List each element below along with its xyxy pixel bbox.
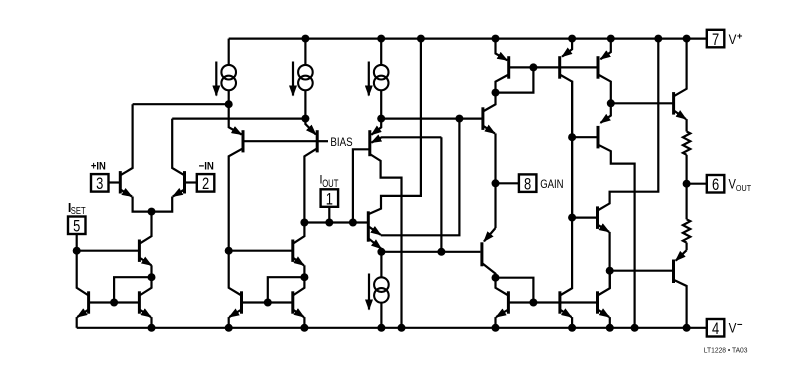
wire Q6 emitter to rail <box>76 317 78 328</box>
transistor Q13 <box>496 39 509 93</box>
transistor Q1 <box>120 104 151 211</box>
svg-text:1: 1 <box>326 190 333 208</box>
transistor Q5 <box>139 212 151 266</box>
transistor Q14 <box>560 39 572 138</box>
node Q18 collector <box>492 274 500 282</box>
wire Q3 Q4 base line <box>243 140 317 142</box>
wire Q2 collector to I2 <box>172 117 305 119</box>
wire Q1 collector to I1 <box>133 103 229 105</box>
node I4 top <box>377 248 385 256</box>
current source I2 <box>293 39 313 119</box>
caption <box>704 346 748 355</box>
wire V- rail <box>77 327 707 329</box>
pin 3 box <box>91 174 109 193</box>
node Q7 on rail <box>148 324 156 332</box>
wire Q13 base line <box>509 66 598 68</box>
transistor Q11 <box>370 119 442 328</box>
node I4 on rail <box>377 324 385 332</box>
node Q16 on rail <box>607 35 615 43</box>
wire VOUT to pin6 <box>687 183 707 185</box>
transistor Q20 <box>560 81 572 318</box>
label -IN <box>199 161 214 173</box>
current source I4 <box>369 252 389 328</box>
transistor Q9 <box>229 251 242 317</box>
wire Q8 emitter down <box>303 265 305 277</box>
wire Q12 emitter1 line <box>381 119 460 236</box>
wire Q19 emitter to rail <box>494 317 496 328</box>
wire V+ rail <box>229 37 707 39</box>
node Q21 on rail <box>606 324 614 332</box>
label GAIN <box>540 177 563 191</box>
wire Q22 emitter down <box>608 232 610 271</box>
node Q5 emitter <box>148 273 156 281</box>
transistor Q21 <box>598 271 610 317</box>
pin 6 box <box>707 175 725 194</box>
label V+ <box>729 31 743 47</box>
node input pair tail <box>148 208 156 216</box>
node Q12 collector on rail <box>417 35 425 43</box>
wire Q11 base riser <box>353 149 370 222</box>
node Q10 on rail <box>300 324 308 332</box>
node Q22 collector on rail <box>654 35 662 43</box>
wire VOUT to R2 <box>685 184 687 220</box>
node GAIN <box>492 179 500 187</box>
node ISET <box>73 247 81 255</box>
node Q23 on rail <box>683 35 691 43</box>
node I2 out <box>301 115 309 123</box>
transistor Q23 <box>674 39 687 120</box>
wire ISET to Q5 base <box>77 250 140 252</box>
node I3 on rail <box>377 35 385 43</box>
node Q22 emitter <box>606 267 614 275</box>
node Q17 collector on rail <box>631 324 639 332</box>
svg-text:LT1228 • TA03: LT1228 • TA03 <box>704 346 748 355</box>
wire Q18c to mirror base <box>496 278 534 303</box>
wire pin3 to Q1 base <box>109 181 121 183</box>
svg-text:5: 5 <box>73 218 80 236</box>
wire Q11 emitter2 drop <box>440 137 442 252</box>
node Q11 base junction <box>349 219 357 227</box>
wire Q20 emitter to rail <box>571 317 573 328</box>
svg-text:7: 7 <box>712 31 719 49</box>
wire IOUT line <box>304 221 368 223</box>
svg-text:V: V <box>729 321 737 336</box>
current source I3 <box>369 39 389 119</box>
pin 7 box <box>707 30 725 49</box>
wire Q21 emitter to rail <box>609 317 611 328</box>
label IOUT <box>319 174 338 190</box>
wire Q10 emitter to rail <box>303 317 305 328</box>
pin 2 box <box>197 174 215 193</box>
label BIAS <box>330 135 352 149</box>
transistor Q6 <box>77 251 89 317</box>
wire BIAS stub <box>317 140 328 142</box>
wire pin2 to Q2 base <box>185 181 197 183</box>
node middle mirror in <box>225 247 233 255</box>
svg-text:4: 4 <box>712 320 719 338</box>
transistor Q3 <box>229 104 243 251</box>
wire Q15 emitter to GAIN <box>494 133 496 183</box>
node Q14 on rail <box>568 35 576 43</box>
node Q16 collector <box>607 99 615 107</box>
wire mirror1 base line <box>89 301 140 303</box>
wire R2 to Q24 <box>685 243 687 251</box>
node Q19 on rail <box>492 324 500 332</box>
node e2 junction <box>437 248 445 256</box>
transistor Q15 <box>483 93 496 134</box>
node IOUT left <box>300 219 308 227</box>
wire Q5 emitter down <box>150 265 152 277</box>
wire base to collector loop <box>496 67 534 92</box>
pin 8 box <box>519 174 537 193</box>
wire Q7 emitter to rail <box>150 317 152 328</box>
wire e2 line to Q18 base <box>381 251 480 253</box>
node Q13 collector <box>492 89 500 97</box>
pin 1 box <box>321 189 339 208</box>
svg-text:−IN: −IN <box>199 161 214 173</box>
wire Q9 emitter to rail <box>228 317 230 328</box>
transistor Q4 <box>304 119 317 223</box>
transistor Q8 <box>293 223 305 266</box>
wire node to Q8 base <box>229 250 293 252</box>
wire Q16c to Q23 base <box>611 102 674 104</box>
node Q24 collector on rail <box>683 324 691 332</box>
wire pin1 to IOUT <box>328 207 330 223</box>
transistor Q19 <box>496 278 509 317</box>
wire Q23 emitter to R1 <box>685 119 687 131</box>
svg-text:2: 2 <box>202 175 209 193</box>
transistor Q17 <box>598 103 635 327</box>
transistor Q7 <box>139 277 151 317</box>
node VOUT <box>683 180 691 188</box>
svg-text:+IN: +IN <box>91 161 106 173</box>
svg-text:6: 6 <box>712 176 719 194</box>
svg-text:OUT: OUT <box>736 183 752 193</box>
node I1 out <box>225 100 233 108</box>
resistor R1 <box>683 132 690 155</box>
svg-text:+: + <box>737 31 743 42</box>
node Q22 base junction <box>568 214 576 222</box>
label ISET <box>68 201 86 217</box>
wire Q17 base <box>572 136 598 138</box>
wire Q22e to Q21 collector <box>609 271 611 289</box>
wire Q12 emitter2 to I4 <box>380 249 382 252</box>
svg-text:8: 8 <box>524 176 531 194</box>
wire mirror3 base line <box>508 301 597 303</box>
node Q13 on rail <box>492 35 500 43</box>
wire Q22e to Q24 base <box>610 270 672 272</box>
node Q17 base junction <box>568 133 576 141</box>
node I2 on rail <box>301 35 309 43</box>
node mirror1 base <box>110 299 118 307</box>
node e1 junction <box>455 115 463 123</box>
wire I3 to Q15 base <box>381 117 483 119</box>
node I3 out <box>377 115 385 123</box>
node Q9 on rail <box>225 324 233 332</box>
transistor Q22 <box>598 39 659 232</box>
label V- <box>729 320 743 336</box>
wire Q5e to mirror bases <box>114 277 151 302</box>
wire R1 to VOUT <box>685 155 687 184</box>
node Q20 on rail <box>568 324 576 332</box>
wire Q22 base <box>572 217 597 219</box>
pin 5 box <box>68 217 86 236</box>
node Q11 collector on rail <box>398 324 406 332</box>
wire pin5 to mirror <box>76 234 78 251</box>
node Q8 emitter <box>300 273 308 281</box>
transistor Q24 <box>674 250 687 328</box>
label VOUT <box>729 177 752 193</box>
svg-text:3: 3 <box>96 175 103 193</box>
node pin1 junction <box>325 219 333 227</box>
wire Q20 collector riser <box>571 137 573 217</box>
wire GAIN to pin8 <box>496 182 519 184</box>
label +IN <box>91 161 106 173</box>
svg-text:BIAS: BIAS <box>330 135 352 149</box>
transistor Q2 <box>152 119 185 212</box>
transistor Q18 <box>482 228 496 278</box>
svg-text:−: − <box>737 320 743 331</box>
wire Q8e to mirror bases <box>268 277 305 302</box>
wire mirror2 base line <box>242 301 293 303</box>
resistor R2 <box>683 219 690 242</box>
svg-text:SET: SET <box>71 206 86 217</box>
transistor Q10 <box>293 277 305 317</box>
transistor Q16 <box>598 39 611 104</box>
node mirror3 base <box>529 299 537 307</box>
svg-text:GAIN: GAIN <box>540 177 563 191</box>
svg-text:V: V <box>729 32 737 47</box>
node mirror2 base <box>264 299 272 307</box>
current source I1 <box>216 39 236 105</box>
pin 4 box <box>707 319 725 338</box>
transistor Q12 <box>368 39 421 249</box>
node Q13 base junction <box>529 63 537 71</box>
wire GAIN down <box>494 183 496 228</box>
